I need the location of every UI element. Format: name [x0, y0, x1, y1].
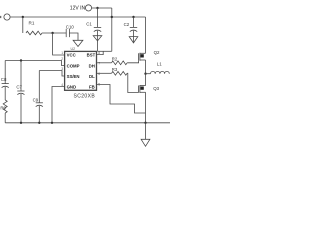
capacitor C8: [1, 77, 9, 88]
ground (main): [145, 123, 147, 140]
wire: R3 to Q3 gate: [127, 73, 139, 92]
svg-text:Q2: Q2: [154, 50, 160, 55]
svg-text:8: 8: [98, 51, 100, 55]
svg-text:C10: C10: [66, 24, 75, 29]
wire: BST stub tick: [97, 51, 104, 54]
wire: GND pin to bottom rail: [52, 87, 65, 123]
capacitor C1: [86, 8, 102, 41]
node dot: C1 tap: [96, 7, 98, 9]
svg-text:R3: R3: [112, 67, 118, 72]
svg-text:COMP: COMP: [67, 63, 80, 68]
svg-text:VCC: VCC: [67, 53, 76, 58]
capacitor C2: [124, 16, 138, 43]
wire: drop to R1: [22, 17, 24, 33]
wire: SS/EN rail: [39, 71, 64, 77]
svg-text:Q3: Q3: [153, 86, 159, 91]
wire: COMP rail: [5, 61, 64, 66]
capacitor C9: [33, 71, 43, 123]
svg-text:R1: R1: [29, 21, 35, 26]
resistor R1: [26, 31, 42, 35]
wire: top rail y=17: [10, 16, 145, 18]
svg-text:1: 1: [61, 51, 63, 55]
wire: rail corner down to Q2 drain: [145, 17, 147, 53]
svg-text:C1: C1: [86, 22, 92, 27]
wire: Q3 source to bottom rail: [145, 92, 147, 123]
resistor R2: [97, 62, 112, 64]
label fragment at left edge: [0, 16, 1, 18]
ground (C10): [73, 40, 83, 46]
node dot: R1 tap: [22, 16, 24, 18]
wire: Q2 source to switch node: [145, 60, 147, 74]
svg-text:U2: U2: [71, 47, 76, 51]
wire: switch node to Q3 drain: [145, 74, 147, 86]
wire: R2 to Q2 gate: [127, 60, 139, 63]
capacitor C10: [65, 29, 67, 37]
resistor R9: [3, 100, 7, 113]
wire: BST bootstrap link: [98, 50, 112, 52]
inductor L1: [146, 73, 151, 75]
wire: bottom rail: [5, 122, 170, 124]
wire: C8 to R9: [4, 87, 6, 100]
op-amp U1 (IC SC20XB body): [65, 51, 97, 90]
svg-text:C8: C8: [1, 77, 7, 82]
wire: R9 to bottom rail: [4, 113, 6, 123]
svg-text:DH: DH: [89, 63, 95, 68]
pin numbers: [61, 51, 100, 87]
wire: C1 apex to BST link: [97, 41, 99, 51]
wire: VCC feed from node A: [53, 33, 65, 55]
wire: drop to C8: [4, 61, 6, 84]
svg-text:SS/EN: SS/EN: [67, 74, 80, 79]
node dot: C7 to rail: [20, 122, 22, 124]
node dot: switch node: [144, 73, 146, 75]
svg-text:FB: FB: [89, 84, 95, 89]
svg-text:R2: R2: [112, 56, 118, 61]
svg-text:C7: C7: [16, 85, 22, 90]
terminal J1 (left input): [4, 14, 10, 20]
wire: 12V IN to rail: [92, 7, 112, 9]
transistor Q3: [139, 85, 160, 93]
svg-text:L1: L1: [157, 61, 162, 66]
svg-text:7: 7: [98, 62, 100, 66]
svg-text:6: 6: [98, 72, 100, 76]
wire: 12V corner down through rail to BST net: [111, 8, 113, 51]
node dot: rail/12V junction: [111, 16, 113, 18]
node dot: C7 tap: [20, 59, 22, 61]
svg-text:GND: GND: [67, 84, 77, 89]
svg-text:C9: C9: [33, 98, 39, 103]
wire: C10 to ground: [69, 33, 78, 40]
svg-text:SC20XB: SC20XB: [74, 94, 96, 100]
svg-text:12V IN: 12V IN: [70, 6, 86, 12]
wire: R1 to C10: [42, 32, 66, 34]
node A (R1/C10/VCC junction): [51, 32, 53, 34]
node dot: C9 to rail: [38, 122, 40, 124]
svg-text:R9: R9: [0, 105, 6, 110]
node dot: Q3 source to rail: [144, 122, 146, 124]
resistor R3: [97, 72, 112, 74]
capacitor C7: [16, 61, 24, 123]
transistor Q2: [139, 50, 160, 61]
node dot: GND to rail: [51, 122, 53, 124]
wire: FB feedback path: [97, 85, 146, 114]
svg-text:BST: BST: [87, 53, 96, 58]
svg-text:C2: C2: [124, 22, 130, 27]
svg-text:DL: DL: [89, 74, 95, 79]
